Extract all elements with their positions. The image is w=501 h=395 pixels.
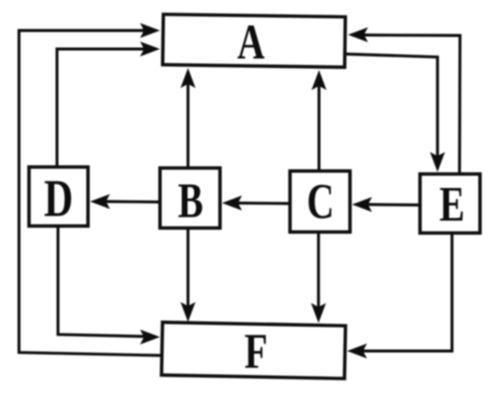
box E <box>420 174 480 233</box>
arrowhead D to A at A left <box>140 42 160 57</box>
svg-text:C: C <box>307 172 334 228</box>
box D <box>29 167 88 226</box>
wire E to C <box>368 203 420 206</box>
box A <box>163 14 346 67</box>
wire B to F <box>187 228 190 307</box>
wire D to A <box>57 49 144 167</box>
svg-text:B: B <box>178 172 203 228</box>
arrowhead B to F at F top <box>181 302 196 322</box>
wire C to F <box>317 232 320 308</box>
wire D to F <box>58 226 146 337</box>
box C <box>290 171 350 232</box>
wire B to A <box>187 83 190 168</box>
label D <box>44 170 73 229</box>
svg-text:E: E <box>439 175 464 231</box>
wire A to E <box>345 54 438 157</box>
svg-text:F: F <box>244 322 267 378</box>
wire F to A (outer left) <box>19 31 163 356</box>
wire E to F <box>363 233 452 351</box>
wire B to D <box>106 200 160 203</box>
wire E to A <box>363 35 460 174</box>
arrowhead B to A at A bottom <box>181 68 196 88</box>
arrowhead A to E at E top <box>430 152 445 172</box>
arrowhead E to F at F right <box>347 344 367 359</box>
wire C to B <box>237 202 290 205</box>
box F <box>162 322 346 378</box>
label F <box>244 322 267 378</box>
arrowhead B to D at D right <box>90 194 110 209</box>
arrowhead C to B at B right <box>222 196 242 211</box>
arrowhead C to A at A bottom <box>312 70 327 90</box>
label B <box>178 172 203 228</box>
label E <box>439 175 464 231</box>
label A <box>237 13 264 69</box>
arrowhead C to F at F top <box>311 303 326 323</box>
arrowhead E to C at C right <box>352 197 372 212</box>
label C <box>307 172 334 228</box>
svg-text:A: A <box>237 13 264 69</box>
svg-text:D: D <box>44 170 73 229</box>
arrowhead F to A at A left <box>140 23 160 38</box>
arrowhead E to A at A right <box>348 27 368 42</box>
box B <box>160 168 220 228</box>
wire C to A <box>318 86 321 171</box>
arrowhead D to F at F left <box>140 330 160 345</box>
